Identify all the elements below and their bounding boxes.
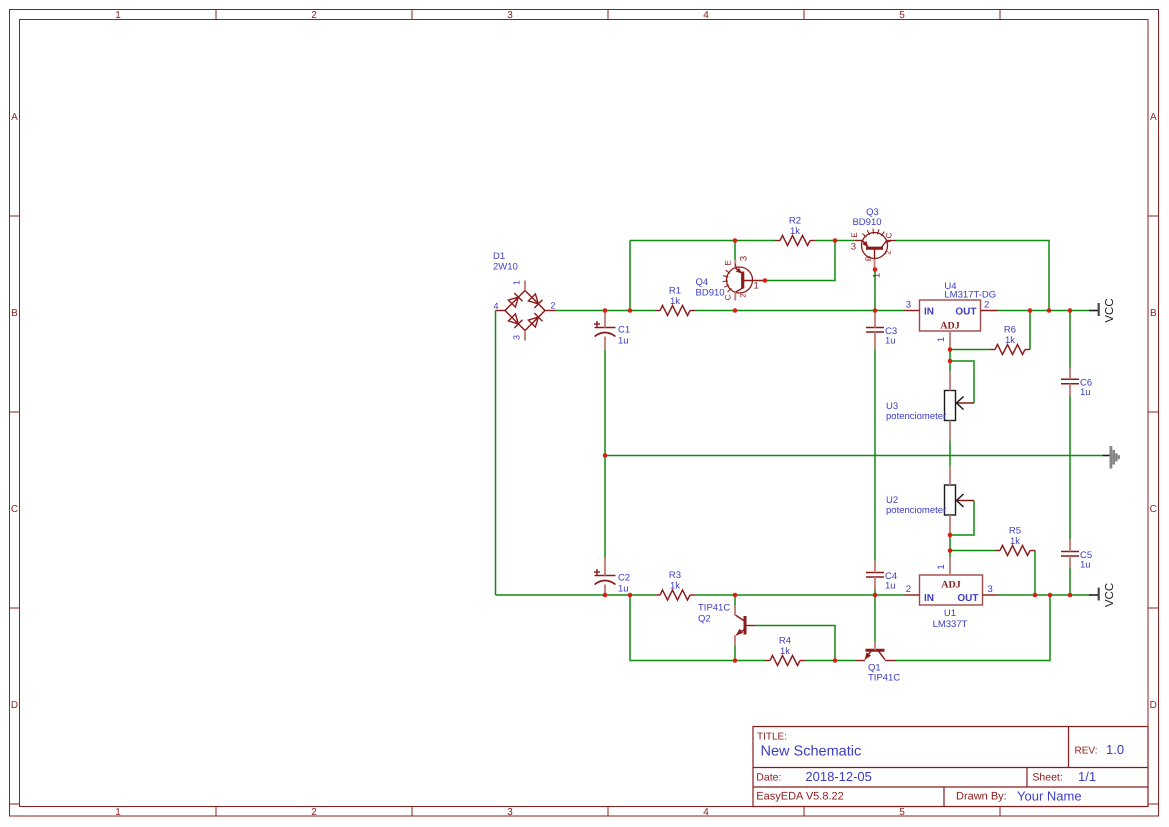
svg-text:R6: R6: [1004, 325, 1016, 336]
resistor R1 (1k): [655, 286, 695, 316]
wire bottom rail left: [496, 594, 656, 596]
VCC symbol bottom: [1089, 583, 1116, 607]
junction main rail / x630 vertical: [628, 308, 633, 313]
wire ADJ node to R5: [950, 550, 995, 552]
svg-text:E: E: [724, 260, 733, 265]
svg-text:2: 2: [906, 584, 911, 595]
svg-text:C1: C1: [618, 325, 630, 336]
wire vertical x630 top: [629, 241, 631, 311]
junction Q3 base pin: [873, 267, 878, 272]
svg-text:Sheet:: Sheet:: [1032, 772, 1062, 784]
Q4 emitter pin lead: [734, 260, 736, 268]
svg-text:3: 3: [906, 300, 911, 311]
wire ADJ to R6: [950, 349, 990, 351]
wire U2 wiper loop: [950, 501, 974, 536]
bridge rectifier D1 2W10: [496, 281, 556, 341]
wire Q4 emitter up to top rail: [734, 241, 736, 260]
U4 OUT pin lead: [981, 310, 999, 312]
wire R5 down to bottom rail: [1034, 551, 1036, 596]
capacitor C6 (1u): [1061, 378, 1092, 399]
wire Q4 base to R2 right node: [765, 241, 835, 281]
junction top rail / R2 / Q4 base wire: [833, 238, 838, 243]
C2 top lead: [604, 558, 606, 576]
Q2 base pin lead: [745, 625, 755, 627]
Q2 collector leg: [735, 615, 744, 621]
wire R4 to node: [805, 660, 835, 662]
svg-text:A: A: [1150, 112, 1157, 123]
svg-text:R3: R3: [669, 570, 681, 581]
svg-text:1: 1: [512, 280, 522, 285]
junction U2 wiper / bottom pin: [948, 533, 953, 538]
Q3 emitter pin lead: [854, 240, 862, 242]
C4 bottom lead: [874, 577, 876, 589]
svg-text:BD910: BD910: [852, 217, 881, 228]
wire lower loop to R4: [735, 660, 765, 662]
svg-text:C2: C2: [618, 573, 630, 584]
C5 bottom lead: [1069, 556, 1071, 568]
Q4 collector pin lead: [735, 288, 742, 292]
svg-text:VCC: VCC: [1104, 298, 1116, 322]
transistor Q2 TIP41C: [735, 606, 755, 647]
capacitor C4 (1u): [866, 571, 897, 592]
svg-text:3: 3: [988, 584, 993, 595]
frame column tick top: [411, 10, 413, 20]
resistor R3 (1k): [655, 570, 695, 600]
svg-text:1k: 1k: [1005, 335, 1015, 346]
wire U4 ADJ node down: [949, 350, 951, 372]
D1 pin 3 lead: [524, 331, 526, 341]
junction bottom rail / Q1 collector wire: [1048, 593, 1053, 598]
resistor R6 (1k): [990, 325, 1030, 355]
svg-text:New Schematic: New Schematic: [761, 744, 862, 760]
svg-text:B: B: [11, 308, 18, 319]
regulator U1 LM337T: [905, 557, 999, 605]
svg-text:ADJ: ADJ: [940, 321, 959, 332]
wire R6 up to main rail: [1029, 311, 1031, 350]
wire top rail left segment: [630, 240, 775, 242]
svg-text:3: 3: [507, 10, 513, 21]
svg-text:1k: 1k: [1010, 536, 1020, 547]
svg-text:3: 3: [851, 242, 856, 253]
svg-text:1: 1: [936, 564, 947, 569]
svg-text:B: B: [1150, 308, 1157, 319]
resistor R2 (1k): [775, 216, 815, 246]
wire left loop vertical: [495, 311, 497, 596]
svg-text:1.0: 1.0: [1106, 742, 1124, 757]
svg-text:1: 1: [754, 281, 759, 292]
junction Q4 base pin: [763, 278, 768, 283]
wire C5 to bottom rail: [1069, 568, 1071, 595]
svg-text:1k: 1k: [790, 226, 800, 237]
frame column tick top: [215, 10, 217, 20]
wire C4 to bottom rail: [874, 589, 876, 595]
svg-text:1k: 1k: [780, 646, 790, 657]
D1 pin 4 lead: [496, 310, 506, 312]
svg-text:1u: 1u: [885, 580, 896, 591]
wire Q3 collector to main rail: [896, 241, 1049, 311]
wire bottom rail U1 OUT to VCC: [998, 594, 1089, 596]
transistor Q3 BD910: [854, 229, 896, 270]
svg-text:1u: 1u: [885, 335, 896, 346]
potentiometer U3: [945, 371, 975, 441]
svg-text:REV:: REV:: [1075, 746, 1098, 757]
svg-text:1: 1: [115, 807, 121, 818]
svg-text:C: C: [1150, 504, 1157, 515]
svg-text:4: 4: [703, 807, 709, 818]
U3 bottom pin lead: [949, 421, 951, 441]
wire bottom rail R3 to U1: [695, 594, 905, 596]
svg-text:C: C: [885, 232, 894, 238]
svg-text:2: 2: [739, 293, 748, 298]
frame row tick left: [10, 803, 20, 805]
svg-text:U1: U1: [944, 608, 956, 619]
frame column tick top: [999, 10, 1001, 20]
wire Q2 emitter to lower loop: [734, 646, 736, 661]
svg-text:2: 2: [311, 10, 317, 21]
junction bottom rail / R5: [1033, 593, 1038, 598]
svg-text:1u: 1u: [1080, 559, 1091, 570]
C3 bottom lead: [874, 332, 876, 350]
frame column tick top: [803, 10, 805, 20]
Q1 base pin lead: [874, 642, 876, 651]
wire mid ground rail: [605, 455, 1103, 457]
wire main rail R1 to U4: [695, 310, 905, 312]
svg-text:2: 2: [551, 301, 556, 311]
wire U2 to U1 ADJ node: [949, 535, 951, 557]
D1 diode 3-2: [528, 317, 538, 327]
Q3 base pin lead: [874, 259, 876, 270]
wire Q1 collector to bottom rail: [895, 595, 1050, 661]
svg-text:1k: 1k: [670, 296, 680, 307]
svg-text:1u: 1u: [1080, 387, 1091, 398]
wire C6 to C5 vertical: [1069, 396, 1071, 540]
Q3 collector pin lead: [881, 241, 887, 249]
svg-text:TITLE:: TITLE:: [757, 732, 787, 743]
transistor Q4 BD910: [723, 260, 765, 301]
C4 top lead: [874, 561, 876, 573]
wire lower loop left: [630, 595, 735, 661]
D1 diode 4-3: [508, 314, 518, 324]
svg-text:2: 2: [884, 250, 893, 255]
frame row tick right: [1148, 411, 1159, 413]
junction main rail / Q4 collector: [733, 308, 738, 313]
regulator U4 LM317T-DG: [905, 300, 999, 350]
svg-text:1u: 1u: [618, 336, 629, 347]
svg-text:3: 3: [507, 807, 513, 818]
wire C3 to C4 vertical: [874, 350, 876, 561]
potentiometer U2: [945, 466, 975, 536]
svg-text:LM317T-DG: LM317T-DG: [944, 290, 996, 301]
frame column tick bottom: [607, 807, 609, 817]
svg-text:TIP41C: TIP41C: [868, 673, 900, 684]
capacitor C5 (1u): [1061, 550, 1092, 571]
Q1 emitter leg: [865, 651, 871, 659]
U1 ADJ pin lead: [949, 557, 951, 575]
frame column tick top: [607, 10, 609, 20]
svg-text:B: B: [864, 256, 873, 261]
frame row tick left: [10, 411, 20, 413]
svg-text:Date:: Date:: [756, 772, 781, 784]
svg-text:A: A: [11, 112, 18, 123]
frame column tick bottom: [215, 807, 217, 817]
wire U3 wiper loop: [950, 361, 974, 403]
svg-text:Your Name: Your Name: [1017, 789, 1082, 804]
frame row tick left: [10, 215, 20, 217]
junction main rail / Q3 collector wire: [1047, 308, 1052, 313]
junction U4 ADJ / R6: [948, 347, 953, 352]
capacitor C3 (1u): [866, 326, 897, 347]
svg-text:potenciometer: potenciometer: [886, 505, 946, 516]
svg-text:D: D: [1150, 700, 1157, 711]
wire main rail bridge to R1: [555, 310, 655, 312]
wire VCC rail down to C6: [1069, 311, 1071, 368]
junction bottom rail / lower loop: [628, 593, 633, 598]
Q1 collector leg: [879, 651, 885, 659]
svg-text:Drawn By:: Drawn By:: [956, 791, 1007, 803]
svg-text:1/1: 1/1: [1078, 769, 1096, 784]
C6 top lead: [1069, 368, 1071, 380]
svg-text:ADJ: ADJ: [941, 580, 960, 591]
U4 IN pin lead: [905, 310, 920, 312]
svg-text:OUT: OUT: [955, 307, 976, 318]
svg-text:IN: IN: [924, 307, 934, 318]
wire Q3 base down to main rail: [874, 270, 876, 311]
frame column tick bottom: [999, 807, 1001, 817]
polarized capacitor C2 (1u): [594, 569, 630, 595]
junction U1 ADJ / R5: [948, 548, 953, 553]
frame row tick right: [1148, 215, 1159, 217]
svg-text:R5: R5: [1009, 526, 1021, 537]
svg-text:5: 5: [899, 10, 905, 21]
svg-text:1: 1: [936, 337, 947, 342]
frame row tick left: [10, 607, 20, 609]
C1 bottom lead: [604, 337, 606, 351]
U4 ADJ pin lead: [949, 331, 951, 350]
svg-text:1: 1: [872, 273, 883, 278]
VCC symbol top: [1089, 298, 1116, 322]
Q4 base pin lead: [743, 280, 765, 282]
svg-text:4: 4: [703, 10, 709, 21]
svg-text:C: C: [11, 504, 18, 515]
wire top rail R2 to Q3: [815, 240, 854, 242]
svg-text:3: 3: [512, 335, 522, 340]
C2 bottom lead: [604, 585, 606, 596]
D1 pin 2 lead: [545, 310, 555, 312]
svg-text:4: 4: [493, 301, 498, 311]
svg-text:2: 2: [984, 300, 989, 311]
svg-text:2W10: 2W10: [493, 262, 518, 273]
wire Q2 collector to bottom rail: [734, 595, 736, 606]
D1 diode 4-1: [508, 297, 518, 307]
U3 top pin lead: [949, 371, 951, 391]
U3 wiper: [957, 402, 974, 404]
wire node to Q1 emitter: [835, 660, 855, 662]
svg-text:D1: D1: [493, 251, 505, 262]
svg-text:2: 2: [311, 807, 317, 818]
junction main rail / Q3 base / C3: [873, 308, 878, 313]
C5 top lead: [1069, 540, 1071, 552]
wire Q1 base up to bottom rail: [874, 595, 876, 642]
ground symbol: [1103, 446, 1120, 469]
svg-text:1: 1: [115, 10, 121, 21]
wire C1 to C2 vertical: [604, 350, 606, 558]
U2 top pin lead: [949, 466, 951, 486]
svg-text:D: D: [11, 700, 18, 711]
svg-text:5: 5: [899, 807, 905, 818]
svg-text:E: E: [850, 232, 859, 237]
wire Q2 base down to R4 node: [755, 626, 835, 661]
junction bottom rail / C4 / Q1 base: [873, 593, 878, 598]
svg-text:TIP41C: TIP41C: [698, 603, 730, 614]
junction main rail / R6: [1028, 308, 1033, 313]
svg-text:Q2: Q2: [698, 614, 711, 625]
junction bottom rail / C2: [603, 593, 608, 598]
wire U3 to U2 link: [949, 441, 951, 466]
junction bottom rail / Q2 collector: [733, 593, 738, 598]
junction main rail / C6: [1068, 308, 1073, 313]
frame column tick bottom: [803, 807, 805, 817]
svg-text:potenciometer: potenciometer: [886, 411, 946, 422]
svg-text:3: 3: [739, 256, 750, 261]
svg-text:BD910: BD910: [696, 288, 725, 299]
resistor R5 (1k): [995, 526, 1035, 556]
C6 bottom lead: [1069, 384, 1071, 396]
svg-text:R4: R4: [779, 636, 791, 647]
title block: [753, 727, 1148, 807]
transistor Q1 TIP41C: [855, 642, 895, 661]
svg-text:IN: IN: [924, 593, 934, 604]
frame row tick right: [1148, 607, 1159, 609]
C1 top lead: [604, 311, 606, 328]
Q2 emitter leg: [736, 630, 744, 635]
frame row tick right: [1148, 803, 1159, 805]
svg-text:R2: R2: [789, 216, 801, 227]
svg-text:OUT: OUT: [957, 593, 978, 604]
svg-text:Q4: Q4: [696, 277, 709, 288]
D1 diode 1-2: [528, 294, 538, 304]
junction top rail / Q4 emitter: [733, 238, 738, 243]
svg-text:1u: 1u: [618, 584, 629, 595]
svg-text:1k: 1k: [670, 581, 680, 592]
svg-text:LM337T: LM337T: [933, 619, 968, 630]
junction mid rail / C1-C2 vertical: [603, 453, 608, 458]
junction U4 ADJ / U3 wiper: [948, 359, 953, 364]
svg-text:VCC: VCC: [1104, 583, 1116, 607]
svg-text:EasyEDA V5.8.22: EasyEDA V5.8.22: [756, 791, 843, 803]
svg-text:C: C: [724, 294, 733, 300]
svg-text:2018-12-05: 2018-12-05: [805, 769, 872, 784]
junction lower loop / R4 / Q2 base wire: [833, 658, 838, 663]
resistor R4 (1k): [765, 636, 805, 666]
junction bottom rail / C5: [1068, 593, 1073, 598]
svg-text:R1: R1: [669, 286, 681, 297]
U2 wiper: [957, 500, 974, 502]
U2 bottom pin lead: [949, 515, 951, 535]
wire main rail U4 OUT to VCC: [998, 310, 1089, 312]
U1 IN pin lead: [905, 594, 920, 596]
polarized capacitor C1 (1u): [594, 321, 630, 347]
frame column tick bottom: [411, 807, 413, 817]
junction main rail / C1: [603, 308, 608, 313]
U1 OUT pin lead: [983, 594, 999, 596]
junction lower loop / Q2 emitter: [733, 658, 738, 663]
C3 top lead: [874, 311, 876, 328]
D1 pin 1 lead: [524, 281, 526, 291]
